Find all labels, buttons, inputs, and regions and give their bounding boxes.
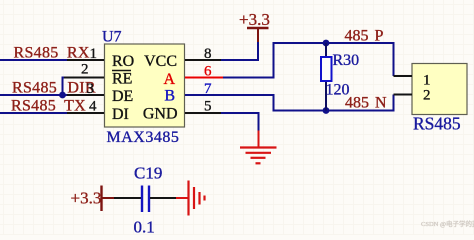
pin 6 A [163, 64, 223, 89]
svg-text:RE: RE [112, 71, 132, 88]
svg-text:7: 7 [204, 81, 212, 97]
svg-text:1: 1 [90, 46, 98, 62]
svg-text:1: 1 [423, 73, 431, 89]
wire VCC to +3.3 [221, 42, 258, 60]
pin 8 VCC [144, 46, 221, 70]
svg-text:RS485: RS485 [413, 114, 461, 134]
svg-text:DI: DI [112, 106, 129, 123]
pin 4 DI [67, 99, 129, 124]
svg-text:485 P: 485 P [345, 28, 384, 45]
svg-text:5: 5 [204, 99, 212, 115]
svg-text:RS485 DIR: RS485 DIR [12, 80, 96, 97]
svg-text:4: 4 [89, 99, 97, 115]
svg-text:MAX3485: MAX3485 [107, 129, 180, 146]
svg-text:B: B [164, 88, 175, 105]
svg-text:2: 2 [423, 88, 431, 104]
wire B to 485_N [221, 95, 394, 111]
ground top [240, 131, 277, 164]
svg-text:+3.3: +3.3 [239, 10, 270, 29]
power +3.3 top [239, 10, 270, 42]
wire A to 485_P [223, 43, 394, 78]
svg-text:3: 3 [87, 81, 95, 97]
svg-text:U7: U7 [102, 29, 122, 46]
capacitor C19 [114, 186, 176, 213]
pin 2 RE [64, 62, 132, 88]
pin 3 DE [67, 81, 133, 105]
wire RS485_TX [0, 112, 68, 114]
ground C19 [176, 181, 205, 216]
wire GND pin5 [221, 113, 259, 132]
svg-text:120: 120 [326, 82, 350, 99]
junction 485_N / R30 [323, 107, 330, 114]
IC U7 body [105, 44, 185, 127]
wire RS485_RX [0, 59, 68, 61]
svg-text:RS485 TX: RS485 TX [11, 98, 86, 115]
svg-text:2: 2 [81, 62, 89, 78]
svg-text:CSDN @电子学的蓝M: CSDN @电子学的蓝M [421, 219, 474, 228]
connector RS485 [394, 64, 468, 115]
power +3.3 C19 [71, 186, 115, 212]
svg-text:0.1: 0.1 [134, 218, 155, 236]
resistor R30 [321, 43, 332, 111]
svg-text:R30: R30 [333, 52, 360, 69]
pin 1 RO [67, 46, 134, 70]
svg-text:6: 6 [204, 64, 212, 80]
svg-text:VCC: VCC [144, 53, 177, 70]
junction RS485_DIR [59, 92, 66, 99]
svg-text:8: 8 [204, 46, 212, 62]
svg-text:RS485 RX: RS485 RX [14, 45, 90, 62]
pin 5 GND [143, 99, 221, 123]
junction 485_P / R30 [323, 40, 330, 47]
wire RS485_DIR [0, 78, 68, 96]
svg-text:DE: DE [112, 88, 133, 105]
pin 7 B [164, 81, 221, 105]
svg-text:RO: RO [112, 53, 134, 70]
svg-text:485 N: 485 N [345, 95, 387, 112]
svg-text:+3.3: +3.3 [71, 189, 102, 208]
svg-text:C19: C19 [134, 164, 162, 183]
svg-text:GND: GND [143, 106, 178, 123]
svg-text:A: A [163, 71, 175, 88]
